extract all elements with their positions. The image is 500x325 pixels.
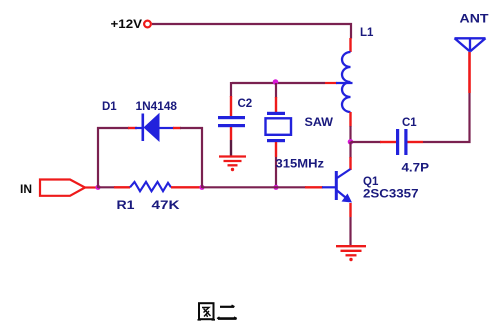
transistor Q1 collector pin <box>349 157 351 170</box>
svg-text:R1: R1 <box>117 198 135 212</box>
label C1 <box>402 117 417 129</box>
label 4.7P <box>402 163 430 175</box>
wire D1 loop right vertical <box>201 127 203 188</box>
wire node to C1 <box>351 141 382 143</box>
resonator SAW <box>266 112 292 142</box>
wire L1 tap horizontal <box>231 82 325 97</box>
label +12V <box>111 17 143 31</box>
label SAW <box>305 117 334 129</box>
wire R1 to Q1 base <box>202 186 306 188</box>
capacitor C2 <box>218 116 245 127</box>
resistor R1 pin right <box>171 186 200 188</box>
antenna ANT <box>455 38 486 51</box>
wire D1 top left <box>97 127 129 129</box>
junction node collector <box>348 139 354 145</box>
svg-text:SAW: SAW <box>305 117 334 129</box>
antenna pin <box>468 52 471 93</box>
label D1 <box>102 101 117 113</box>
wire node to R1 <box>98 186 115 188</box>
terminal +12V <box>144 21 151 28</box>
svg-text:ANT: ANT <box>460 14 489 26</box>
inductor L1 pin bottom <box>349 112 351 127</box>
label R1 <box>117 198 135 212</box>
wire emitter to ground <box>349 217 351 245</box>
transistor Q1 emitter pin <box>349 203 351 217</box>
svg-text:2SC3357: 2SC3357 <box>363 189 419 201</box>
label 1N4148 <box>136 101 178 113</box>
wire tap red segment into coil <box>325 82 337 84</box>
inductor L1 pin top <box>349 38 351 52</box>
svg-text:Q1: Q1 <box>363 176 379 188</box>
svg-text:47K: 47K <box>152 198 180 212</box>
junction node SAW/base <box>273 185 278 190</box>
label 2SC3357 <box>363 189 419 201</box>
wire node to Q1 collector <box>349 142 351 158</box>
capacitor C1 pin right <box>408 141 424 143</box>
resistor R1 <box>130 182 171 191</box>
svg-text:D1: D1 <box>102 101 117 113</box>
transistor Q1 <box>322 169 352 203</box>
wire SAW to base net <box>275 157 277 187</box>
wire L1 bottom to node <box>349 126 351 142</box>
svg-text:4.7P: 4.7P <box>402 163 430 175</box>
port IN <box>40 180 96 196</box>
diode D1 pin left <box>128 127 137 129</box>
svg-text:C2: C2 <box>238 98 253 110</box>
svg-text:L1: L1 <box>360 27 374 39</box>
capacitor C1 <box>396 129 408 155</box>
wire C1 to antenna <box>423 93 470 142</box>
label ANT <box>460 14 489 26</box>
ground below C2 <box>219 157 246 172</box>
label 47K <box>152 198 180 212</box>
junction node tap/SAW <box>273 79 279 85</box>
label L1 <box>360 27 374 39</box>
inductor L1 <box>342 52 351 112</box>
wire +12V to L1 top <box>152 24 351 39</box>
wire C2 to ground <box>230 140 232 156</box>
svg-text:IN: IN <box>20 182 32 196</box>
resonator SAW pin bottom <box>275 142 277 157</box>
svg-text:1N4148: 1N4148 <box>136 101 178 113</box>
diode D1 <box>135 113 174 142</box>
capacitor C1 pin left <box>380 141 396 143</box>
resistor R1 pin left <box>114 186 130 188</box>
capacitor C2 pin bottom <box>230 127 232 140</box>
wire D1 loop left vertical <box>97 127 99 188</box>
inductor L1 tap tick <box>336 82 353 84</box>
junction node R1 right <box>199 185 204 190</box>
ground below Q1 <box>336 246 366 261</box>
svg-text:C1: C1 <box>402 117 417 129</box>
svg-text:315MHz: 315MHz <box>276 159 325 171</box>
wire tap node to SAW <box>275 83 277 98</box>
junction node IN <box>95 185 100 190</box>
capacitor C2 pin top <box>230 96 232 116</box>
wire D1 top right <box>180 127 203 129</box>
label IN <box>20 182 32 196</box>
caption 图二 (drawn strokes) <box>198 303 237 320</box>
resonator SAW pin top <box>275 97 277 112</box>
transistor Q1 base pin <box>305 186 323 188</box>
diode D1 pin right <box>173 127 181 129</box>
label C2 <box>238 98 253 110</box>
label Q1 <box>363 176 379 188</box>
label 315MHz <box>276 159 325 171</box>
svg-text:+12V: +12V <box>111 17 143 31</box>
